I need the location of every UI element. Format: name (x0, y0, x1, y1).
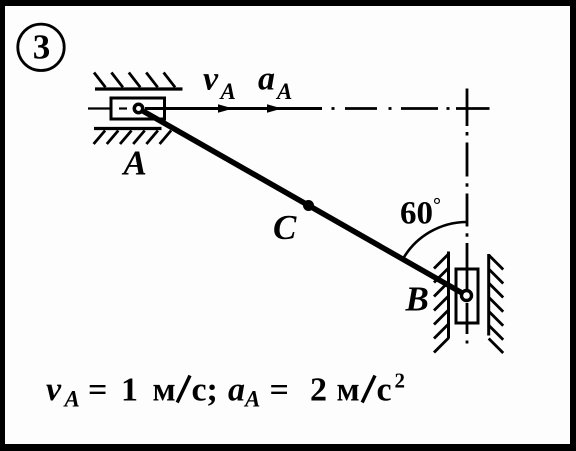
horizontal dash-dot centerline to the right (332, 107, 490, 110)
svg-text:B: B (405, 280, 429, 319)
horizontal arrow line from A (145, 107, 322, 110)
slider block A (111, 98, 165, 119)
svg-text:2: 2 (310, 372, 327, 409)
velocity arrowhead vA (218, 104, 233, 112)
svg-text:с: с (192, 372, 207, 409)
svg-text:A: A (243, 387, 260, 412)
acceleration arrowhead aA (267, 104, 282, 112)
svg-text:a: a (258, 61, 275, 98)
svg-text:м: м (337, 372, 360, 409)
given data formula vA = 1 m/s ; aA = 2 m/s^2 (46, 369, 405, 412)
slider block B (456, 269, 478, 323)
svg-text:м: м (153, 372, 176, 409)
slider B right wall line (487, 254, 490, 336)
centerline dash inside block A (119, 107, 127, 109)
pin at A (134, 104, 142, 112)
svg-text:A: A (275, 79, 292, 104)
slider B left wall hatching (434, 254, 449, 353)
svg-text:2: 2 (395, 369, 406, 393)
rod AB (139, 109, 467, 296)
svg-text:с: с (377, 372, 392, 409)
point C marker on rod (303, 200, 314, 211)
svg-text:v: v (46, 371, 62, 408)
slider A top guide line (95, 87, 183, 90)
pin at B (462, 291, 472, 301)
svg-text:=: = (88, 372, 107, 409)
label vA (203, 61, 236, 105)
svg-text:a: a (228, 372, 245, 409)
svg-text:A: A (122, 144, 147, 183)
vertical dash-dot centerline at B (466, 89, 469, 344)
slider A top guide hatching (94, 73, 175, 88)
slider B right wall hatching (489, 255, 504, 353)
svg-text:A: A (63, 387, 80, 412)
label aA (258, 61, 292, 105)
slider A bottom guide line (94, 127, 162, 130)
label 60 degrees (400, 195, 441, 232)
svg-text:=: = (270, 372, 289, 409)
svg-text:C: C (273, 208, 297, 247)
60 degree angle arc at B (403, 222, 467, 259)
problem number badge 3 (18, 24, 64, 70)
svg-text:3: 3 (33, 28, 51, 67)
slider B left wall line (447, 252, 450, 339)
slider A bottom guide hatching (94, 131, 172, 145)
centerline stub left of block A (88, 107, 110, 109)
svg-text:°: ° (433, 195, 441, 217)
svg-text:A: A (219, 79, 236, 104)
svg-text:;: ; (207, 372, 218, 409)
svg-text:60: 60 (400, 196, 433, 232)
svg-text:v: v (203, 61, 219, 98)
svg-text:1: 1 (121, 372, 138, 409)
